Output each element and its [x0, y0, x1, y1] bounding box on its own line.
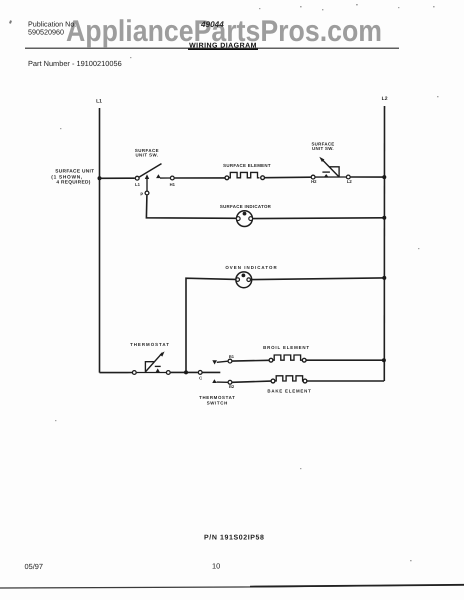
svg-text:SWITCH: SWITCH [207, 401, 228, 406]
bake element [271, 376, 307, 383]
svg-text:C: C [199, 376, 202, 381]
text model number 49044 [200, 20, 224, 29]
scan specks [55, 4, 439, 561]
oven indicator lamp [236, 272, 252, 288]
wire bake element to L2 corner [307, 380, 384, 382]
text publication number [28, 20, 76, 37]
svg-text:L1: L1 [135, 182, 141, 187]
footer rule [0, 585, 464, 588]
wire thermostat to C [171, 371, 198, 373]
label thermostat switch [199, 395, 235, 406]
wire C to switch pivot [203, 371, 221, 373]
surface unit switch SW1 (left) [135, 164, 174, 195]
svg-text:49044: 49044 [200, 20, 224, 29]
wire B2 to bake element [232, 381, 271, 382]
wire element to right switch [265, 176, 311, 179]
svg-text:THERMOSTAT: THERMOSTAT [130, 342, 170, 347]
wire surface indicator to L2 [253, 217, 385, 220]
svg-text:P/N 191S02IP58: P/N 191S02IP58 [204, 534, 265, 542]
wire L1 bottom to thermostat [100, 372, 133, 374]
svg-text:BAKE ELEMENT: BAKE ELEMENT [267, 388, 311, 393]
svg-text:10: 10 [212, 562, 220, 571]
label surface unit note [51, 169, 94, 186]
junction L2 broil [382, 358, 386, 362]
watermark AppliancePartsPros.com [66, 15, 382, 48]
svg-text:H1: H1 [170, 182, 176, 187]
surface indicator lamp [236, 211, 252, 227]
svg-text:SURFACE INDICATOR: SURFACE INDICATOR [220, 204, 272, 209]
node C terminal [198, 371, 202, 375]
surface element [225, 172, 265, 179]
svg-text:05/97: 05/97 [25, 562, 44, 571]
wire broil element to L2 [306, 359, 384, 361]
svg-text:B1: B1 [229, 354, 235, 359]
thermostat switch [212, 359, 232, 384]
svg-text:L2: L2 [347, 179, 353, 184]
broil element [269, 355, 306, 362]
svg-text:UNIT SW.: UNIT SW. [312, 146, 334, 151]
svg-text:B2: B2 [229, 384, 235, 389]
wire L1 bus [99, 108, 101, 373]
junction L2 oven indicator [382, 276, 386, 280]
wire L1 bus to switch [100, 177, 135, 179]
junction L2 surface indicator [382, 216, 386, 220]
scan speck top left [9, 20, 12, 24]
svg-text:P: P [140, 191, 143, 196]
wire right switch to L2 bus [351, 176, 385, 178]
svg-text:BROIL ELEMENT: BROIL ELEMENT [263, 345, 310, 350]
junction oven branch [184, 370, 188, 374]
wire B1 to broil element [232, 359, 269, 362]
wire H1 to element [175, 177, 225, 179]
svg-text:OVEN INDICATOR: OVEN INDICATOR [225, 265, 277, 270]
svg-text:H2: H2 [311, 179, 317, 184]
svg-text:SURFACE UNIT: SURFACE UNIT [55, 169, 94, 175]
wire P to surface indicator [146, 195, 236, 218]
wire oven indicator to L2 [251, 278, 385, 280]
label surface unit sw right [311, 141, 334, 151]
title WIRING DIAGRAM [188, 42, 258, 49]
svg-text:SURFACE ELEMENT: SURFACE ELEMENT [223, 163, 271, 168]
svg-text:Part Number - 19100210056: Part Number - 19100210056 [28, 59, 122, 68]
svg-text:L1: L1 [96, 98, 102, 104]
thermostat [132, 351, 170, 374]
surface unit switch SW2 (right) [311, 157, 350, 179]
svg-text:4 REQUIRED): 4 REQUIRED) [56, 180, 90, 186]
svg-text:UNIT SW.: UNIT SW. [135, 153, 158, 158]
svg-text:590520960: 590520960 [28, 28, 64, 37]
junction L2 main wire [382, 175, 386, 179]
label surface unit sw left [135, 148, 159, 158]
header rule [25, 47, 399, 49]
svg-text:THERMOSTAT: THERMOSTAT [199, 395, 235, 400]
svg-text:L2: L2 [382, 96, 388, 102]
junction L1 main wire [98, 176, 102, 180]
wire oven branch vertical [186, 278, 236, 372]
wire L2 bus [383, 106, 385, 381]
svg-text:(1 SHOWN,: (1 SHOWN, [51, 175, 83, 181]
